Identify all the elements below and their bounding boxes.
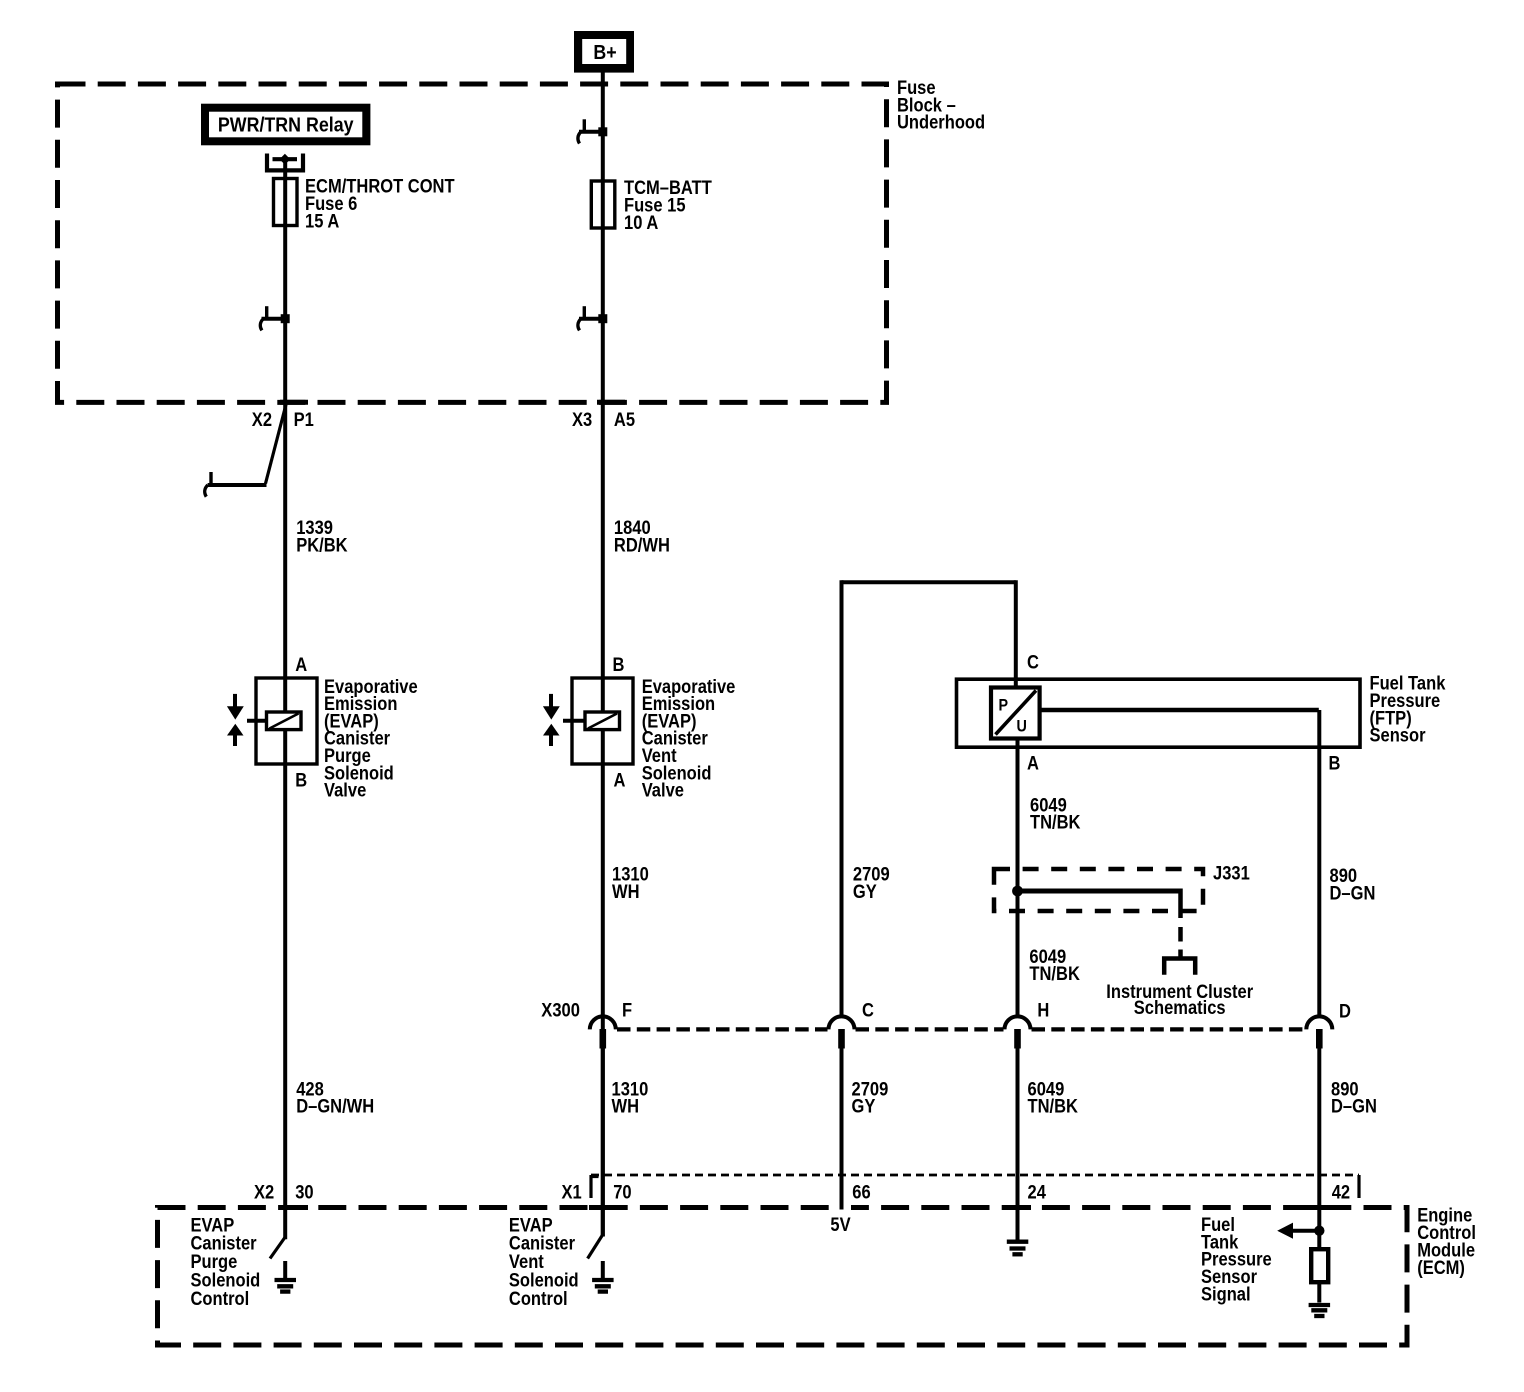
label X2 P1 (252, 409, 314, 430)
svg-text:H: H (1037, 1000, 1049, 1021)
svg-text:10 A: 10 A (624, 212, 658, 233)
svg-text:P: P (999, 697, 1009, 715)
label vent valve (642, 676, 736, 801)
svg-text:B+: B+ (593, 42, 616, 64)
svg-text:D–GN/WH: D–GN/WH (296, 1096, 374, 1117)
label X1 70 (562, 1181, 632, 1202)
wire 1840 vertical (vent feed) (601, 70, 605, 1237)
tick crossing pin 30 (281, 1205, 308, 1210)
junction dot pin 42 (1314, 1226, 1324, 1236)
connector arc pin C (829, 1016, 855, 1048)
connector clip on B+ feed (578, 119, 607, 143)
tick crossing pin 24 (1004, 1205, 1031, 1210)
fuse F15 TCM-BATT (591, 181, 615, 228)
ground pin 24 (1007, 1242, 1029, 1255)
svg-text:Control: Control (191, 1288, 250, 1309)
wire 890 D-GN vertical (1317, 710, 1321, 1017)
svg-text:GY: GY (852, 1096, 876, 1117)
pinch valve symbol purge (227, 694, 244, 746)
wire 1339 vertical (purge feed) (283, 159, 287, 1239)
wire gap at pin 66 crossing (832, 1204, 851, 1212)
label wire 890 D-GN lower (1331, 1078, 1377, 1117)
ground purge control (275, 1261, 297, 1292)
svg-text:Valve: Valve (642, 780, 684, 801)
label EVAP canister purge solenoid control (191, 1214, 261, 1309)
ECM inner dashed separator (591, 1175, 1359, 1198)
svg-text:(ECM): (ECM) (1417, 1257, 1465, 1278)
svg-text:B: B (613, 654, 625, 675)
svg-text:TN/BK: TN/BK (1029, 963, 1080, 984)
svg-text:24: 24 (1028, 1181, 1046, 1202)
label X3 A5 (572, 409, 635, 430)
driver switch purge (270, 1237, 285, 1259)
svg-text:Control: Control (509, 1288, 568, 1309)
wire to FTP sensor C (1014, 580, 1018, 688)
fuse F6 ECM/THROT CONT (274, 179, 298, 226)
svg-text:U: U (1017, 718, 1027, 736)
solenoid EVAP canister vent valve (563, 678, 633, 764)
svg-text:X2: X2 (252, 409, 272, 430)
tick crossing pin 70 (589, 1205, 616, 1210)
connector arc pin H (1005, 1016, 1031, 1048)
svg-text:P1: P1 (294, 409, 314, 430)
label EVAP canister vent solenoid control (509, 1214, 579, 1309)
connector clip on purge feed below fuse 6 (260, 306, 289, 330)
wire FTP internal to pin B (1040, 708, 1319, 712)
svg-text:66: 66 (852, 1181, 870, 1202)
sensor FTP box (957, 679, 1361, 747)
connector X2 pin P1 breakout wire (205, 405, 286, 497)
label fuse 15 (624, 177, 712, 234)
label instrument cluster schematics (1106, 981, 1253, 1019)
wire top link 5V reference (842, 580, 1016, 584)
solenoid EVAP canister purge valve (247, 678, 317, 764)
svg-text:WH: WH (612, 881, 640, 902)
svg-text:TN/BK: TN/BK (1028, 1096, 1079, 1117)
node B+ terminal box (574, 31, 634, 73)
svg-text:Underhood: Underhood (897, 112, 985, 133)
relay PWR/TRN Relay box (201, 104, 370, 146)
svg-text:D–GN: D–GN (1330, 882, 1376, 903)
svg-text:C: C (862, 1000, 874, 1021)
svg-text:15 A: 15 A (305, 211, 339, 232)
label wire 2709 GY lower (852, 1078, 889, 1117)
arrow FTP sensor signal (1277, 1223, 1319, 1239)
svg-text:RD/WH: RD/WH (614, 534, 670, 555)
svg-text:X3: X3 (572, 409, 592, 430)
wire 6049 TN/BK below X300 (1016, 1046, 1020, 1241)
tick crossing pin 42 (1306, 1205, 1333, 1210)
label wire 428 D-GN/WH (296, 1078, 374, 1117)
svg-text:A5: A5 (614, 409, 635, 430)
svg-text:X2: X2 (254, 1181, 274, 1202)
svg-text:Schematics: Schematics (1134, 997, 1226, 1018)
label wire 890 D-GN upper (1330, 865, 1376, 904)
wire splice branch to instrument cluster (1018, 889, 1181, 942)
connector arc pin D (1306, 1016, 1332, 1048)
label fuel tank pressure sensor signal (1201, 1214, 1272, 1305)
svg-text:D–GN: D–GN (1331, 1096, 1377, 1117)
svg-text:A: A (295, 654, 307, 675)
svg-text:Valve: Valve (324, 780, 366, 801)
svg-text:J331: J331 (1213, 862, 1250, 883)
svg-text:Signal: Signal (1201, 1283, 1251, 1304)
tick crossing at X2/P1 (280, 400, 308, 405)
svg-text:X300: X300 (541, 1000, 580, 1021)
svg-text:TN/BK: TN/BK (1030, 812, 1081, 833)
label wire 1310 WH lower (612, 1078, 649, 1117)
wire 6049 vertical from FTP A (1016, 688, 1020, 1017)
label wire 1840 RD/WH (614, 517, 670, 556)
label fuse 6 (305, 175, 455, 232)
svg-text:F: F (622, 1000, 632, 1021)
connector X300 dashed line (617, 1027, 1306, 1031)
svg-text:30: 30 (295, 1181, 313, 1202)
label wire 2709 GY upper (853, 863, 890, 902)
connector arc pin F (590, 1016, 616, 1048)
relay output bracket symbol (267, 154, 303, 171)
svg-text:B: B (295, 769, 307, 790)
svg-text:X1: X1 (562, 1181, 582, 1202)
svg-text:B: B (1329, 753, 1341, 774)
tick crossing at X3/A5 (597, 400, 625, 405)
svg-text:A: A (614, 769, 626, 790)
label wire 1310 WH upper (612, 863, 649, 902)
ECM dashed box (158, 1208, 1408, 1346)
svg-text:D: D (1339, 1001, 1351, 1022)
svg-text:5V: 5V (830, 1214, 850, 1235)
resistor ECM internal (1311, 1249, 1328, 1282)
ground pin 42 (1309, 1282, 1331, 1316)
driver switch vent (588, 1235, 603, 1259)
label Fuel Tank Pressure (FTP) Sensor (1370, 673, 1446, 746)
label wire 6049 TN/BK lower (1028, 1078, 1079, 1117)
label wire 1339 PK/BK (296, 517, 348, 556)
svg-text:42: 42 (1332, 1181, 1350, 1202)
wire 1310 WH below X300 (601, 1046, 605, 1237)
svg-text:70: 70 (613, 1181, 631, 1202)
wire 890 D-GN below X300 (1317, 1046, 1321, 1250)
label wire 6049 TN/BK middle (1029, 946, 1080, 985)
splice J331 dashed box (994, 869, 1203, 911)
svg-text:Sensor: Sensor (1370, 725, 1426, 746)
label engine control module (1417, 1205, 1476, 1279)
off-page connector to instrument cluster (1164, 950, 1195, 975)
fuse block - underhood dashed box (58, 84, 887, 402)
svg-text:WH: WH (612, 1096, 640, 1117)
label wire 6049 TN/BK upper (1030, 794, 1081, 833)
label X2 30 (254, 1181, 314, 1202)
connector clip on vent feed below fuse 15 (578, 306, 607, 330)
svg-text:GY: GY (853, 881, 877, 902)
svg-text:A: A (1027, 753, 1039, 774)
splice junction dot (1012, 886, 1023, 897)
svg-text:C: C (1027, 652, 1039, 673)
wire 2709 GY vertical (840, 580, 844, 1016)
pinch valve symbol vent (543, 694, 560, 746)
ground vent control (592, 1261, 614, 1292)
wire 2709 GY below X300 (840, 1046, 844, 1208)
svg-text:PK/BK: PK/BK (296, 534, 348, 555)
label Fuse Block - Underhood (897, 77, 985, 133)
label purge valve (324, 676, 418, 801)
P/U pressure transducer symbol (991, 688, 1040, 739)
svg-text:PWR/TRN Relay: PWR/TRN Relay (218, 114, 354, 136)
